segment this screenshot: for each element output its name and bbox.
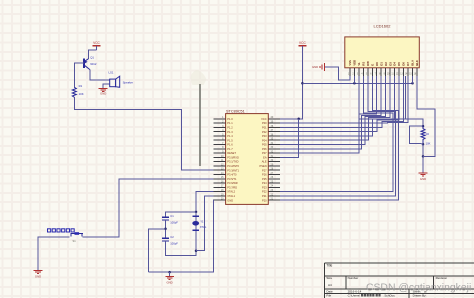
node junction pin40-EA branch (297, 118, 300, 121)
title block text File (326, 294, 331, 298)
title block text Drawn By (413, 294, 427, 298)
svg-text:Number: Number (348, 276, 359, 280)
label switch Chinese (校时开关) (48, 229, 75, 232)
MCU pin 34 P05 (262, 142, 280, 147)
svg-text:P20: P20 (262, 198, 267, 202)
svg-text:P03: P03 (262, 134, 267, 138)
MCU pin 15 P3.5/T1 (214, 176, 237, 181)
svg-text:S1: S1 (73, 239, 77, 243)
MCU pin 25 P24 (262, 181, 280, 186)
svg-text:GND: GND (227, 198, 233, 202)
watermark CSDN @cqtianxingkeji (366, 283, 471, 294)
MCU pin 37 P02 (262, 129, 280, 134)
svg-text:P1.4: P1.4 (227, 134, 233, 138)
MCU pin 26 P25 (262, 176, 280, 181)
svg-text:BLA: BLA (411, 60, 415, 66)
svg-text:P24: P24 (262, 181, 267, 185)
svg-text:R1: R1 (79, 84, 83, 88)
LCD pin 6 E (370, 64, 374, 76)
ground GND (LCD VSS, sideways) (312, 63, 324, 71)
title block text Number (348, 276, 359, 280)
wire P2.2 to LCD RS (280, 76, 393, 192)
wire crystal top to C1 (166, 212, 197, 217)
svg-text:P02: P02 (262, 130, 267, 134)
title block text Sheet of (413, 289, 427, 293)
MCU pin 14 P3.4/T0 (214, 172, 237, 177)
svg-text:XTAL1: XTAL1 (227, 194, 235, 198)
MCU pin 19 XTAL1 (214, 193, 236, 198)
wire R2 bottom to ground node (422, 144, 424, 156)
svg-text:P1.2: P1.2 (227, 126, 233, 130)
svg-text:EA: EA (263, 156, 267, 160)
power VCC (LCD rail) (298, 41, 306, 47)
label 10K (79, 92, 84, 96)
svg-text:D6: D6 (402, 62, 406, 66)
wire LCD VDD stub to rail (353, 76, 355, 83)
wire LCD VSS to ground (325, 67, 350, 80)
label 100pF (C1) (170, 221, 178, 225)
svg-text:Size: Size (326, 276, 332, 280)
LCD pin 13 D6 (400, 62, 405, 76)
svg-text:D4: D4 (393, 62, 397, 66)
wire crystal bottom to MCU XTAL1 (196, 196, 214, 251)
MCU pin 31 EA (263, 155, 280, 160)
svg-text:D5: D5 (397, 62, 401, 66)
title block text Date (326, 289, 333, 293)
title block text 2016-6-14 (348, 289, 362, 293)
MCU pin 22 P21 (262, 193, 280, 198)
node junction crystal bottom (195, 249, 198, 252)
crystal Y1 XTAL (192, 212, 199, 251)
MCU pin 20 GND (214, 198, 233, 203)
svg-text:9012: 9012 (90, 62, 97, 66)
MCU pin 38 P01 (262, 125, 280, 130)
MCU pin 40 VCC (261, 116, 280, 121)
svg-text:GND: GND (100, 92, 106, 96)
svg-text:15: 15 (409, 74, 412, 76)
label S1 (73, 239, 77, 243)
svg-text:P3.2/INT0: P3.2/INT0 (227, 164, 239, 168)
svg-text:Title: Title (326, 263, 332, 267)
LCD pin 14 D7 (405, 62, 410, 76)
MCU pin 23 P22 (262, 189, 280, 194)
svg-text:STC89C51: STC89C51 (226, 109, 245, 113)
svg-text:P07: P07 (262, 151, 267, 155)
LCD pin 1 VSS (348, 60, 352, 76)
MCU pin 24 P23 (262, 185, 280, 190)
MCU pin 32 P07 (262, 151, 280, 156)
svg-text:Speaker: Speaker (123, 81, 133, 85)
svg-text:VDD: VDD (353, 60, 357, 66)
wire R2 wiper loop (410, 126, 423, 144)
svg-text:D3: D3 (388, 62, 392, 66)
MCU pin 7 P1.6 (214, 142, 233, 147)
svg-text:P05: P05 (262, 143, 267, 147)
MCU pin 27 P26 (262, 172, 280, 177)
wire Q1 base to R1 (74, 63, 84, 87)
node junction LCD VDD on rail (353, 82, 356, 85)
wire speaker to ground (103, 84, 110, 88)
svg-text:P1.7: P1.7 (227, 147, 233, 151)
MCU pin 30 ALE (262, 159, 281, 164)
svg-text:C:\Users\: C:\Users\ (348, 294, 361, 298)
svg-text:D0: D0 (375, 62, 379, 66)
svg-text:Revision: Revision (436, 276, 448, 280)
svg-text:VCC: VCC (299, 41, 306, 45)
svg-text:VSS: VSS (348, 60, 352, 66)
title block text Revision (436, 276, 448, 280)
switch S1 push button (71, 232, 84, 236)
LCD pin 5 RW (366, 61, 370, 76)
node junction VCC rail branch (301, 82, 304, 85)
wire P0.7 to LCD D0 (280, 76, 377, 153)
title block text Size (326, 276, 332, 280)
svg-text:PSEN: PSEN (260, 164, 267, 168)
svg-text:Drawn By:: Drawn By: (413, 294, 427, 298)
svg-text:C2: C2 (170, 235, 174, 239)
title block text file path (348, 294, 396, 298)
svg-text:P23: P23 (262, 185, 267, 189)
svg-text:P3.7/RD: P3.7/RD (227, 185, 237, 189)
MCU pin 35 P04 (262, 138, 280, 143)
svg-text:10K: 10K (426, 141, 431, 145)
svg-text:100pF: 100pF (170, 242, 178, 246)
svg-text:R2: R2 (426, 132, 430, 136)
svg-text:CSDN @cqtianxingkeji: CSDN @cqtianxingkeji (366, 283, 471, 294)
wire P0.5 to LCD D2 (280, 76, 386, 145)
power VCC (transistor) (93, 41, 101, 50)
svg-text:P22: P22 (262, 190, 267, 194)
node junction ground rail tap (168, 271, 171, 274)
svg-text:BLK: BLK (415, 60, 419, 66)
svg-text:RS: RS (361, 62, 365, 66)
MCU pin 9 RESET (214, 151, 237, 156)
wire MCU GND pin down to ground rail (149, 200, 214, 272)
svg-text:P21: P21 (262, 194, 267, 198)
capacitor C1 (162, 217, 169, 220)
MCU pin 33 P06 (262, 146, 280, 151)
svg-text:P3.1/TXD: P3.1/TXD (227, 160, 238, 164)
label Q1 (90, 56, 94, 60)
MCU pin 17 P3.7/RD (214, 185, 238, 190)
MCU pin 6 P1.5 (214, 138, 233, 143)
LCD pin 15 BLA (409, 60, 414, 76)
LCD J1 LCD1602 body (345, 37, 420, 68)
LCD designator label LCD1602 (374, 24, 392, 29)
LCD pin 10 D3 (387, 62, 392, 76)
svg-text:P3.5/T1: P3.5/T1 (227, 177, 237, 181)
wire MCU XTAL2 to crystal top (196, 192, 214, 212)
svg-text:P25: P25 (262, 177, 267, 181)
LCD pin 7 D0 (375, 62, 379, 76)
MCU pin 5 P1.4 (214, 133, 233, 138)
LCD pin 3 VL (357, 62, 361, 76)
wire P0.1 to LCD D6 (280, 76, 403, 127)
svg-text:Y1: Y1 (200, 220, 204, 224)
svg-text:C1: C1 (170, 214, 174, 218)
label LS1 (109, 71, 114, 75)
MCU pin 29 PSEN (260, 163, 281, 168)
cursor ghost artifact (191, 70, 207, 85)
wire cap midpoint to ground rail (149, 229, 166, 272)
node junction R2 top (422, 125, 425, 128)
wire branch D6 area to R2 node (404, 76, 406, 119)
MCU pin 10 P3.0/RXD (214, 155, 239, 160)
svg-text:E: E (370, 64, 374, 66)
resistor R1 (72, 87, 76, 97)
svg-text:P1.0: P1.0 (227, 117, 233, 121)
wire LCD BLA stub to rail (412, 76, 414, 83)
wire MCU P3.5 to switch (83, 179, 214, 237)
svg-text:VL: VL (357, 62, 361, 66)
transistor Q1 9012 (84, 58, 90, 69)
LCD pin 16 BLK (414, 60, 419, 76)
MCU pin 11 P3.1/TXD (214, 159, 239, 164)
svg-text:LCD1602: LCD1602 (374, 24, 392, 29)
MCU pin 12 P3.2/INT0 (214, 163, 240, 168)
node junction R2 ground node (422, 155, 425, 158)
label R1 (79, 84, 83, 88)
svg-text:P3.0/RXD: P3.0/RXD (227, 156, 239, 160)
svg-text:VCC: VCC (93, 41, 100, 45)
svg-text:P01: P01 (262, 126, 267, 130)
svg-text:.SchDoc: .SchDoc (384, 294, 396, 298)
MCU U1 STC89C51 body (226, 114, 269, 205)
svg-text:P1.1: P1.1 (227, 121, 233, 125)
wire Q1 collector to speaker (90, 70, 110, 81)
svg-text:LS1: LS1 (109, 71, 114, 75)
gray vertical line artifact (199, 84, 201, 166)
resistor R2 (421, 126, 425, 144)
svg-text:P3.4/T0: P3.4/T0 (227, 173, 237, 177)
svg-text:GND: GND (312, 65, 318, 69)
wire VCC vertical to MCU pin 40 (280, 48, 302, 119)
node junction R2 bottom (422, 143, 425, 146)
MCU pin 1 P1.0 (214, 116, 233, 121)
MCU pin 39 P00 (262, 121, 280, 126)
MCU U1 designator label STC89C51 (226, 109, 245, 113)
svg-text:D2: D2 (384, 62, 388, 66)
LCD pin 2 VDD (352, 60, 356, 76)
speaker LS1 (110, 76, 120, 87)
svg-text:ALE: ALE (262, 160, 267, 164)
ground GND (switch) (34, 270, 43, 278)
svg-text:P27: P27 (262, 168, 267, 172)
wire VCC rail to LCD backlight (302, 82, 412, 84)
label C2 (170, 235, 174, 239)
MCU pin 18 XTAL2 (214, 189, 236, 194)
MCU pin 16 P3.6/WR (214, 181, 238, 186)
wire P0.0 to LCD D7 (280, 76, 408, 123)
svg-text:P3.6/WR: P3.6/WR (227, 181, 238, 185)
svg-text:XTAL: XTAL (200, 225, 207, 229)
label 9012 (90, 62, 97, 66)
MCU pin 36 P03 (262, 133, 280, 138)
wire VCC to Q1 emitter (88, 50, 96, 59)
wire P0.4 to LCD D3 (280, 76, 390, 140)
svg-text:11: 11 (391, 74, 394, 76)
label R2 (426, 132, 430, 136)
svg-text:XTAL2: XTAL2 (227, 190, 235, 194)
svg-text:D7: D7 (406, 62, 410, 66)
svg-text:P1.5: P1.5 (227, 138, 233, 142)
wire C2 to crystal bottom (166, 241, 197, 255)
svg-text:GND: GND (420, 177, 426, 181)
node junction C1-C2 midpoint (164, 228, 167, 231)
svg-text:GND: GND (35, 275, 41, 279)
node junction crystal top (195, 211, 198, 214)
wire LCD VL to R2 (359, 76, 423, 126)
svg-text:A4: A4 (328, 283, 332, 287)
MCU pin 21 P20 (262, 198, 280, 203)
wire LCD BLK to ground node (417, 76, 435, 156)
svg-text:13: 13 (400, 74, 403, 76)
svg-text:P06: P06 (262, 147, 267, 151)
svg-text:P3.3/INT1: P3.3/INT1 (227, 168, 239, 172)
ground GND (speaker) (99, 89, 108, 96)
ground GND (crystal) (165, 272, 174, 284)
title block text Title (326, 263, 332, 267)
title block text A4 (328, 283, 332, 287)
label Speaker (123, 81, 133, 85)
label C1 (170, 214, 174, 218)
wire R1 to MCU P3.3 (74, 97, 213, 170)
svg-text:File: File (326, 294, 331, 298)
svg-text:D1: D1 (379, 62, 383, 66)
ground GND (R2) (419, 156, 428, 181)
LCD pin 9 D2 (384, 62, 388, 76)
svg-text:10: 10 (387, 74, 390, 76)
LCD pin 11 D4 (391, 62, 396, 76)
MCU pin 8 P1.7 (214, 146, 233, 151)
wire P2.1 to LCD RW (280, 76, 396, 196)
title block frame (325, 263, 474, 298)
svg-text:10K: 10K (79, 92, 84, 96)
svg-text:GND: GND (166, 280, 172, 284)
svg-text:RW: RW (366, 61, 370, 66)
MCU pin 3 P1.2 (214, 125, 233, 130)
wire P0.6 to LCD D1 (280, 76, 381, 149)
wire P2.0 to LCD E (280, 76, 398, 200)
capacitor C2 (162, 238, 169, 241)
MCU pin 13 P3.3/INT1 (214, 168, 240, 173)
svg-text:VCC: VCC (261, 117, 267, 121)
svg-text:100pF: 100pF (170, 221, 178, 225)
label XTAL (200, 225, 207, 229)
svg-text:RESET: RESET (227, 151, 236, 155)
label Y1 (200, 220, 204, 224)
LCD pin 8 D1 (379, 62, 383, 76)
MCU pin 2 P1.1 (214, 121, 233, 126)
svg-text:P26: P26 (262, 173, 267, 177)
label 10K (R2) (426, 141, 431, 145)
svg-text:P1.6: P1.6 (227, 143, 233, 147)
svg-text:12: 12 (396, 74, 399, 76)
wire P0.3 to LCD D4 (280, 76, 394, 136)
svg-text:Q1: Q1 (90, 56, 94, 60)
wire C1 to C2 (165, 220, 167, 238)
svg-text:P04: P04 (262, 138, 267, 142)
MCU pin 4 P1.3 (214, 129, 233, 134)
LCD pin 12 D5 (396, 62, 401, 76)
LCD pin 4 RS (361, 62, 365, 76)
label 100pF (C2) (170, 242, 178, 246)
svg-text:P00: P00 (262, 121, 267, 125)
wire VCC branch to MCU EA (280, 119, 299, 158)
svg-text:P1.3: P1.3 (227, 130, 233, 134)
wire P0.2 to LCD D5 (280, 76, 399, 132)
node junction LCD BLA on rail (411, 82, 414, 85)
MCU pin 28 P27 (262, 168, 280, 173)
wire switch to ground (38, 237, 70, 270)
